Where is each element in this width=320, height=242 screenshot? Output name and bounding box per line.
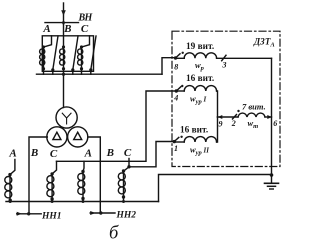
ground — [265, 175, 279, 189]
LV2 CT phase A drop — [82, 161, 85, 171]
svg-text:В: В — [30, 147, 38, 159]
svg-text:С: С — [124, 147, 132, 159]
svg-text:2: 2 — [231, 119, 236, 128]
svg-text:1: 1 — [174, 144, 178, 153]
LV2 CT phase C coil — [118, 167, 129, 202]
CT TA-A primary diagonal — [51, 36, 58, 71]
transformer T three-winding: star circle — [56, 107, 77, 128]
svg-text:wр: wр — [195, 60, 205, 72]
LV1 CT phase C coil — [47, 172, 54, 201]
wire LV bus to relay terminal 4 — [57, 91, 177, 161]
transformer T delta circle left — [47, 127, 67, 147]
svg-text:С: С — [50, 148, 58, 160]
svg-text:С: С — [81, 23, 89, 35]
LV1 CT phase A coil — [5, 173, 12, 202]
svg-text:ДЗТА: ДЗТА — [253, 37, 275, 49]
LV2 CT phase A coil — [78, 170, 85, 202]
wire common bus to ground wire — [159, 175, 272, 202]
svg-text:В: В — [63, 23, 71, 35]
wire LV1 B-phase from transformer — [29, 137, 47, 214]
CT box outline — [42, 36, 93, 72]
wire LV2 coil to relay terminal 1 — [129, 142, 174, 167]
svg-text:7 вит.: 7 вит. — [242, 102, 266, 112]
relay equalizing winding w_ur2 — [173, 117, 218, 143]
relay working winding w_p — [174, 52, 272, 61]
svg-text:3: 3 — [222, 61, 227, 70]
wire HV horizontal bus — [45, 22, 79, 24]
CT TA-B secondary coil — [60, 45, 65, 70]
svg-text:НН2: НН2 — [116, 211, 137, 221]
CT TA-C secondary coil — [78, 36, 90, 70]
CT TA-C primary diagonal — [89, 36, 96, 71]
svg-text:НН1: НН1 — [41, 212, 62, 222]
wire LV2 B-phase from transformer — [88, 137, 100, 213]
node dots on common bus — [9, 200, 12, 203]
svg-text:В: В — [106, 147, 114, 159]
node B junction on bus — [62, 73, 65, 76]
relay equalizing winding w_ur1 — [175, 85, 218, 117]
LV1 CT phase C drop — [52, 161, 56, 173]
svg-text:16 вит.: 16 вит. — [186, 74, 214, 84]
wire right side down from w_p — [271, 58, 273, 175]
wire secondary common bus bottom — [6, 201, 159, 203]
relay braking winding w_t — [218, 110, 272, 119]
wire CT secondary bus below box — [37, 73, 163, 75]
LV1 CT phase A drop — [10, 160, 15, 175]
svg-text:9: 9 — [219, 120, 223, 129]
svg-text:wур I: wур I — [190, 94, 206, 106]
node wire to terminal 1 start — [127, 165, 130, 168]
svg-text:4: 4 — [173, 94, 178, 103]
svg-text:ВН: ВН — [78, 12, 94, 23]
svg-text:16 вит.: 16 вит. — [180, 126, 208, 136]
svg-text:6: 6 — [273, 119, 277, 128]
svg-text:19 вит.: 19 вит. — [186, 42, 214, 52]
LV2 CT phase C drop — [128, 159, 130, 167]
svg-text:А: А — [84, 147, 92, 159]
transformer T delta circle right — [68, 127, 88, 147]
CT TA-B primary diagonal — [71, 36, 78, 71]
svg-text:wур II: wур II — [190, 145, 209, 157]
CT TA-A secondary coil — [40, 36, 52, 70]
node feed junction — [62, 21, 65, 24]
wire LV1 outgoing tail — [17, 213, 42, 215]
wire HV feed arrow — [61, 10, 66, 16]
wire bus to relay terminal 8 — [162, 58, 176, 74]
node ground junction — [270, 173, 274, 177]
svg-text:А: А — [42, 23, 50, 35]
svg-text:8: 8 — [174, 63, 178, 72]
svg-text:wт: wт — [248, 118, 259, 130]
wire stubs from CT box to bus — [44, 69, 91, 75]
relay DZT box dash-dot border — [172, 31, 280, 166]
wire LV2 outgoing tail — [90, 212, 115, 214]
svg-text:б: б — [109, 224, 119, 242]
wire B phase through CT box down to transformer — [63, 24, 65, 108]
svg-text:А: А — [8, 147, 16, 159]
wire HV feed line B phase — [63, 3, 65, 24]
